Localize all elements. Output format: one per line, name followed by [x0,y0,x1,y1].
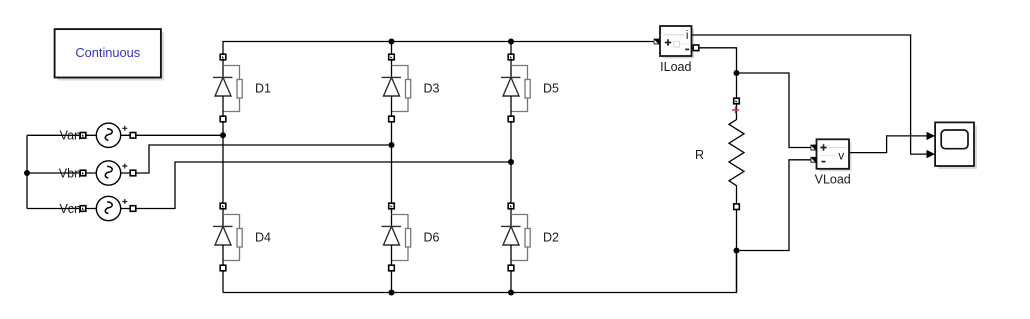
node Vcn-D5 junction [508,159,514,165]
svg-text:R: R [695,148,704,162]
svg-text:Continuous: Continuous [75,45,140,60]
wire Van to D1 column [136,134,223,136]
svg-text:Vbn: Vbn [59,166,81,180]
wire ILoad i to Scope [692,35,927,154]
svg-text:D1: D1 [255,81,271,95]
svg-text:ILoad: ILoad [660,60,691,74]
svg-text:i: i [686,30,689,42]
powergui Continuous block [55,29,164,80]
voltage measurement VLoad [817,139,852,171]
diode D2 [501,203,559,271]
wire D3 top stub [391,42,393,55]
current measurement ILoad [660,26,694,59]
node top bus D3 junction [389,39,395,45]
wire D4 bottom stub [222,271,224,293]
node bottom bus D2 junction [508,290,514,296]
diode D6 [382,203,440,271]
svg-text:D5: D5 [543,81,559,95]
wire ILoad minus to R [699,48,737,98]
wire D5 top stub [510,42,512,55]
AC voltage source Vcn [59,196,135,220]
wire Vcn left segment [27,208,80,210]
svg-text:v: v [838,151,844,163]
wire R bottom to bus [736,210,738,293]
wire D5-D2 column [510,122,512,203]
port ILoad - output [693,45,699,51]
wire Vbn to D3 column [136,145,392,173]
diode D4 [213,203,271,271]
node left bus junction [24,170,30,176]
diode D1 [213,54,271,122]
port ILoad + input [654,39,660,45]
wire top positive bus [223,42,654,55]
svg-text:VLoad: VLoad [815,173,851,187]
node Vbn-D3 junction [389,142,395,148]
resistor R [695,98,744,209]
AC voltage source Van [60,123,136,147]
port Scope input 1 [927,132,936,140]
diode D5 [501,54,559,122]
wire bottom negative bus [223,251,737,293]
scope block [935,122,977,169]
wire D1-D4 column [222,122,224,203]
node Van-D1 junction [220,132,226,138]
svg-text:D3: D3 [424,81,440,95]
wire D3-D6 column [391,122,393,203]
wire D6 bottom stub [391,271,393,293]
wire R top to VLoad + [737,73,811,148]
svg-text:Vcn: Vcn [59,202,81,216]
wire left phase bus [26,135,28,208]
svg-text:D6: D6 [424,230,440,244]
svg-text:D4: D4 [255,230,271,244]
wire Vcn to D5 column [136,162,511,209]
svg-text:Van: Van [60,129,81,143]
port VLoad - input [811,157,817,163]
node R bottom junction [734,248,740,254]
wire D2 bottom stub [510,271,512,293]
node bottom bus D6 junction [389,290,395,296]
AC voltage source Vbn [59,161,136,185]
port VLoad + input [811,145,817,151]
wire Van left segment [27,134,80,136]
svg-text:D2: D2 [543,230,559,244]
wire bottom bus to VLoad - [737,160,811,251]
wire VLoad v to Scope [849,136,927,153]
node top bus D5 junction [508,39,514,45]
wire Vbn left segment [27,172,80,174]
port Scope input 2 [927,150,936,158]
node R top junction [734,70,740,76]
diode D3 [382,54,440,122]
